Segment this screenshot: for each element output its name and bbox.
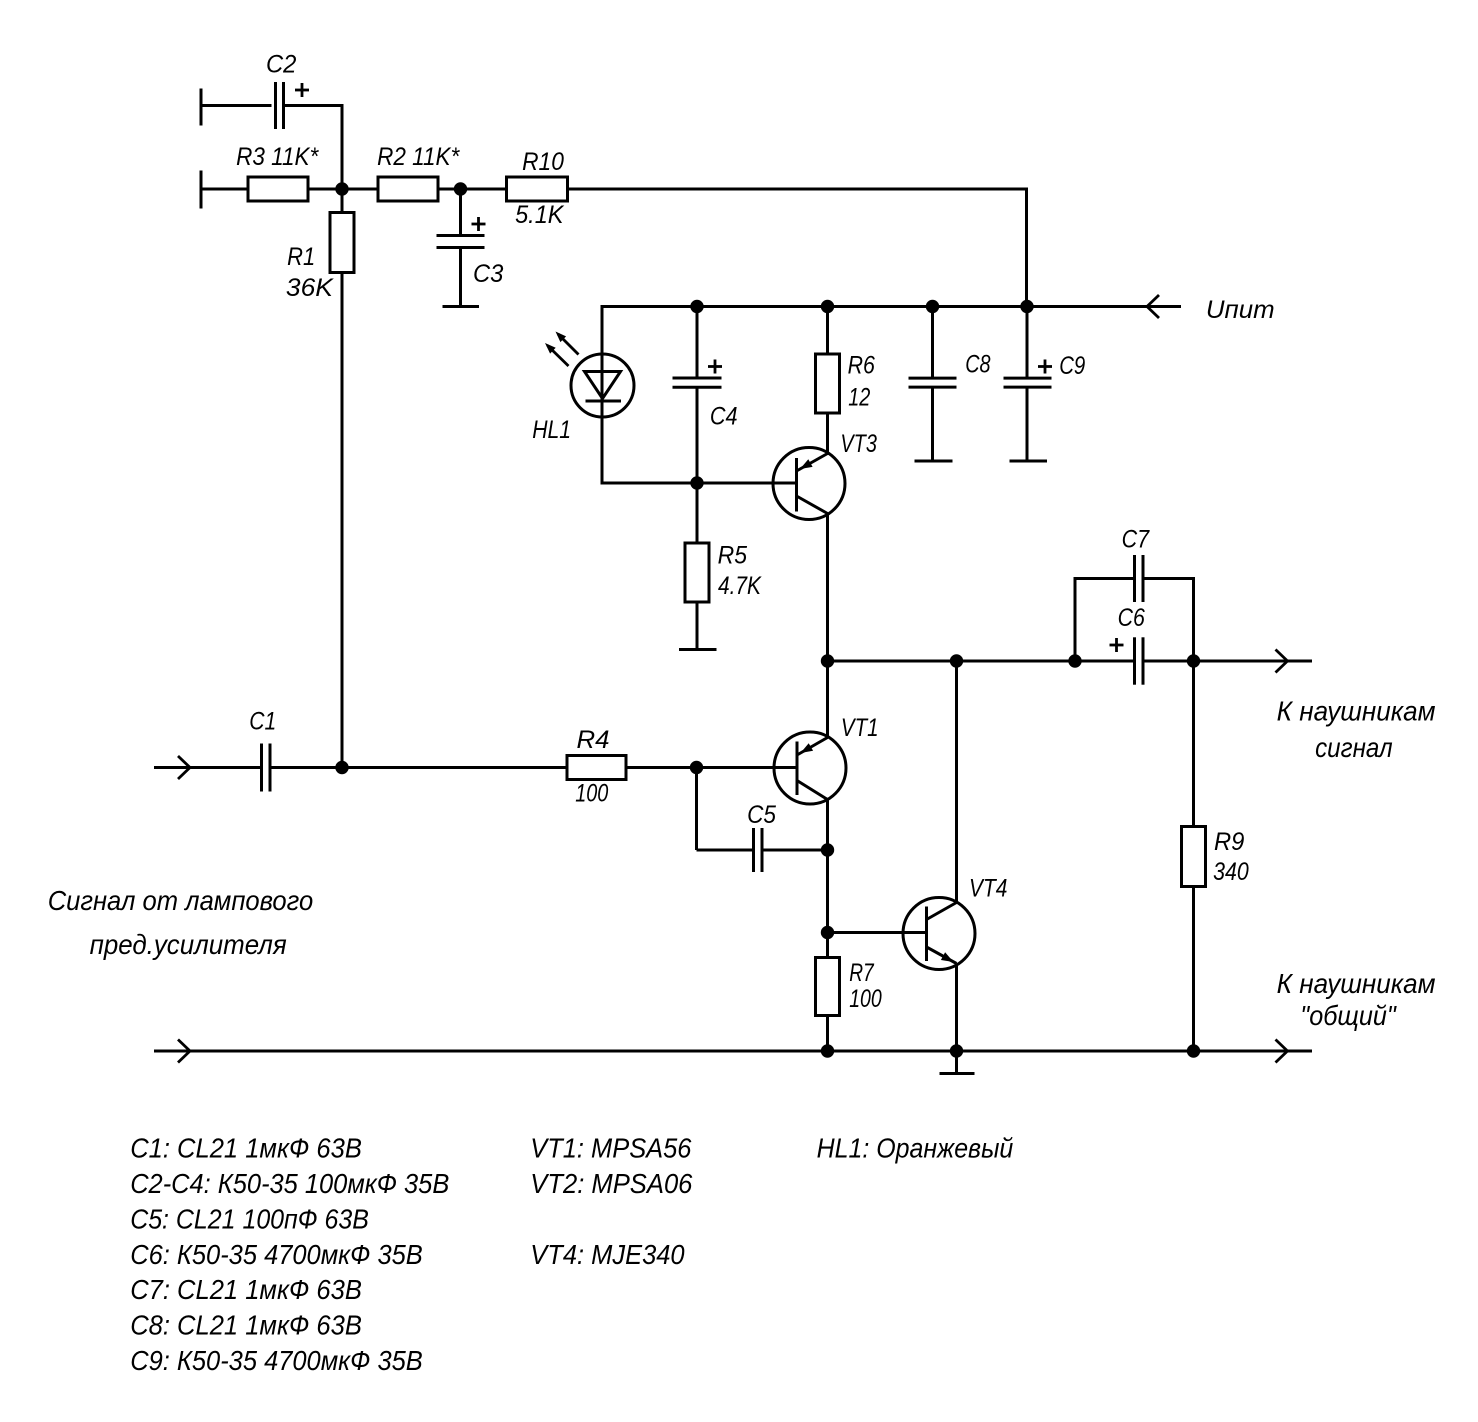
svg-text:C7: CL21 1мкФ 63В: C7: CL21 1мкФ 63В [130,1274,362,1305]
svg-text:340: 340 [1213,858,1249,886]
svg-text:R10: R10 [522,148,564,176]
svg-text:VT2: MPSA06: VT2: MPSA06 [530,1168,692,1199]
svg-text:R7: R7 [849,959,874,987]
svg-text:C8: C8 [965,351,990,379]
svg-text:"общий": "общий" [1300,1000,1396,1031]
svg-text:C6: К50-35 4700мкФ 35В: C6: К50-35 4700мкФ 35В [130,1239,423,1270]
svg-text:VT1: MPSA56: VT1: MPSA56 [530,1133,691,1164]
svg-text:VT3: VT3 [840,430,877,458]
svg-text:C1: C1 [249,708,276,736]
svg-text:12: 12 [848,384,870,412]
svg-text:Uпит: Uпит [1206,296,1275,324]
svg-text:C2: C2 [266,51,296,79]
svg-text:C4: C4 [710,403,738,431]
svg-text:C9: К50-35 4700мкФ 35В: C9: К50-35 4700мкФ 35В [130,1345,423,1376]
svg-text:36K: 36K [286,274,334,302]
svg-text:пред.усилителя: пред.усилителя [90,929,287,960]
svg-text:R5: R5 [718,542,747,570]
svg-text:C3: C3 [473,260,503,288]
svg-text:R4: R4 [577,726,610,754]
svg-text:R1: R1 [287,243,315,271]
svg-text:R9: R9 [1214,828,1244,856]
svg-text:C7: C7 [1122,526,1150,554]
svg-text:VT4: VT4 [969,875,1007,903]
svg-text:VT1: VT1 [841,714,879,742]
svg-text:C9: C9 [1059,352,1085,380]
svg-text:Сигнал от лампового: Сигнал от лампового [48,885,314,916]
svg-text:К наушникам: К наушникам [1277,968,1436,999]
svg-text:R6: R6 [848,352,875,380]
svg-text:C8: CL21 1мкФ 63В: C8: CL21 1мкФ 63В [130,1310,362,1341]
svg-text:C1: CL21 1мкФ 63В: C1: CL21 1мкФ 63В [130,1133,362,1164]
svg-text:HL1: HL1 [532,416,571,444]
svg-text:сигнал: сигнал [1315,732,1393,763]
svg-text:100: 100 [575,780,608,808]
svg-text:C2-C4: К50-35 100мкФ 35В: C2-C4: К50-35 100мкФ 35В [130,1168,449,1199]
svg-text:VT4: MJE340: VT4: MJE340 [530,1239,685,1270]
svg-text:4.7K: 4.7K [718,572,762,600]
svg-text:R2 11K*: R2 11K* [377,143,460,171]
svg-text:5.1K: 5.1K [515,201,565,229]
svg-text:100: 100 [849,985,882,1013]
svg-text:R3 11K*: R3 11K* [236,143,319,171]
svg-text:HL1: Оранжевый: HL1: Оранжевый [817,1133,1014,1164]
svg-text:К наушникам: К наушникам [1277,696,1436,727]
svg-text:C5: CL21 100пФ 63В: C5: CL21 100пФ 63В [130,1203,369,1234]
svg-text:C5: C5 [747,801,776,829]
svg-text:C6: C6 [1118,604,1145,632]
